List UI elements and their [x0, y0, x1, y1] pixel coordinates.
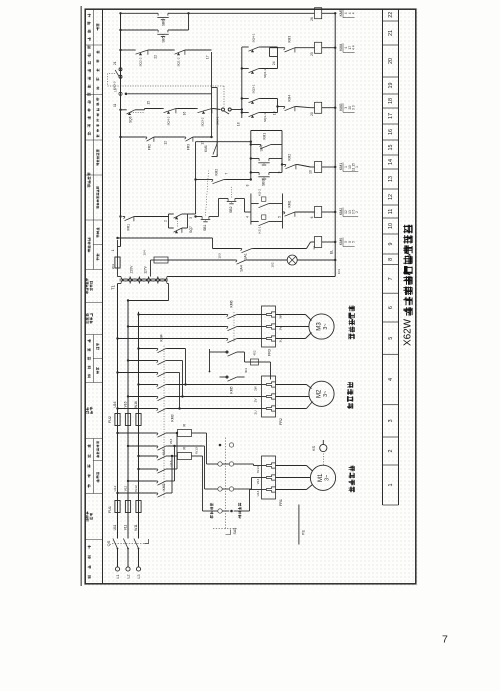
- svg-text:2: 2: [388, 450, 394, 453]
- wire lamp feeder: [218, 253, 222, 258]
- svg-text:2: 2: [164, 220, 168, 222]
- svg-text:18: 18: [388, 98, 394, 104]
- thermal relay FR3 heaters: [262, 306, 276, 356]
- svg-text:KM4: KM4: [288, 95, 292, 102]
- svg-text:V12: V12: [124, 485, 128, 491]
- svg-text:KM1: KM1: [162, 448, 166, 455]
- svg-text:KM2: KM2: [288, 154, 292, 161]
- auxiliary contact KM2 NO: [194, 169, 251, 184]
- wire 19 merge: [273, 99, 283, 116]
- fuse FU3 control: [111, 240, 134, 277]
- wire M3 drops from bus: [116, 313, 225, 339]
- fuse FU2: [108, 414, 141, 426]
- svg-text:13: 13: [114, 88, 118, 92]
- svg-text:12: 12: [388, 194, 394, 200]
- svg-text:127V: 127V: [144, 265, 148, 273]
- resistor R braking 1: [168, 447, 203, 460]
- header table labels: [86, 14, 100, 579]
- svg-text:EL: EL: [330, 250, 334, 254]
- svg-text:W16: W16: [134, 401, 138, 408]
- coil KM2: [315, 207, 344, 218]
- mechanical link dotted line of main contacts: [163, 345, 165, 498]
- terminal L1: [115, 567, 120, 579]
- crossref KM4: [343, 43, 355, 52]
- svg-text:KM2: KM2: [215, 169, 219, 176]
- svg-text:SQ4-1: SQ4-1: [252, 33, 256, 42]
- switch QS: [106, 539, 149, 550]
- crossref KM2: [343, 208, 359, 217]
- svg-text:SQ6: SQ6: [129, 116, 133, 123]
- wire labels 2U 2V 2W: [254, 386, 258, 414]
- wire labels U14 V14 W14: [256, 466, 260, 496]
- svg-text:U14: U14: [256, 490, 260, 496]
- svg-text:V14: V14: [256, 478, 260, 484]
- svg-text:KS-2: KS-2: [258, 189, 262, 196]
- dashed linkage SA3: [108, 86, 225, 107]
- svg-text:2W: 2W: [254, 386, 258, 391]
- wire labels 3U 3V 3W: [279, 314, 283, 342]
- lamp EL: [287, 250, 336, 265]
- svg-text:10: 10: [309, 170, 313, 174]
- svg-text:14: 14: [312, 246, 316, 250]
- svg-text:15: 15: [388, 145, 394, 151]
- svg-text:6: 6: [388, 306, 394, 309]
- wire jog into reversing switch: [168, 433, 211, 511]
- svg-text:SB5: SB5: [162, 36, 166, 42]
- auxiliary contact tap with fuse FU5: [209, 349, 271, 394]
- wire KM4 crossover to M2 phases: [168, 349, 187, 410]
- svg-text:1: 1: [388, 484, 394, 487]
- svg-text:11: 11: [388, 209, 394, 215]
- thermal relay FR2 heaters: [262, 376, 284, 425]
- svg-text:T1: T1: [111, 284, 116, 290]
- wire parallel pair: [212, 52, 218, 157]
- button SB6 rapid: [119, 12, 188, 26]
- svg-text:KM1: KM1: [288, 200, 292, 207]
- svg-text:SQ7: SQ7: [189, 226, 193, 233]
- wire control rail top: [118, 13, 121, 247]
- wire labels U13 V13 W13: [169, 438, 199, 466]
- contactor KM6 main contacts: [226, 300, 239, 342]
- wire phase bus L3: [138, 312, 140, 567]
- svg-text:16: 16: [388, 129, 394, 135]
- svg-text:KM5: KM5: [339, 9, 343, 16]
- thermal contact FR2 NC: [119, 136, 155, 150]
- wire phase bus L1: [117, 284, 119, 567]
- svg-text:9: 9: [278, 171, 282, 173]
- crossref KM5: [343, 9, 355, 18]
- svg-text:3: 3: [388, 419, 394, 422]
- svg-text:W13: W13: [195, 447, 199, 454]
- svg-text:2: 2: [355, 211, 359, 213]
- svg-text:KS: KS: [311, 446, 316, 452]
- svg-text:8: 8: [246, 184, 250, 186]
- title X62W universal milling machine electrical schematic: [402, 225, 413, 346]
- svg-text:14: 14: [388, 159, 394, 165]
- contactor KM1 main contacts: [156, 433, 168, 460]
- wire labels U16 V16 W16: [113, 401, 138, 408]
- label cooling pump motor: [349, 306, 355, 340]
- svg-text:SA5: SA5: [233, 528, 237, 535]
- outer left border line of scanned sheet: [81, 6, 82, 586]
- switch SA1 cooling pump: [240, 242, 315, 260]
- label feed motor: [347, 382, 353, 409]
- fuse FU4 lighting: [143, 250, 235, 276]
- svg-text:401: 401: [244, 368, 248, 373]
- svg-text:KM4: KM4: [160, 334, 164, 341]
- limit switch SQ2-1: [241, 67, 278, 78]
- coil KM1: [315, 162, 344, 173]
- crossref KM1: [343, 163, 359, 172]
- wire labels U11 V11 W11: [113, 524, 138, 531]
- svg-text:X62W: X62W: [402, 318, 413, 346]
- switch SA3-3 on rail: [108, 61, 123, 90]
- svg-text:M1: M1: [318, 473, 324, 482]
- svg-text:101: 101: [337, 269, 341, 274]
- svg-text:17: 17: [206, 55, 210, 59]
- svg-text:FR3: FR3: [268, 349, 272, 356]
- motor M3 cooling pump: [309, 314, 334, 339]
- limit switch SQ4-2 NC: [147, 101, 196, 126]
- svg-text:22: 22: [154, 55, 158, 59]
- svg-text:FU2: FU2: [108, 416, 112, 423]
- wire to KM5 coil: [187, 12, 314, 30]
- svg-text:KM6: KM6: [339, 238, 343, 245]
- button SB5 rapid: [119, 29, 188, 43]
- wire phase bus L2: [127, 301, 129, 567]
- svg-text:KM3: KM3: [339, 104, 343, 111]
- svg-text:KM1: KM1: [263, 133, 267, 140]
- svg-text:FR2: FR2: [148, 144, 152, 150]
- svg-text:20: 20: [310, 112, 314, 116]
- drawing frame: [85, 9, 416, 584]
- svg-text:104: 104: [143, 250, 147, 255]
- svg-text:U13: U13: [169, 460, 173, 466]
- svg-text:SA1: SA1: [244, 253, 248, 260]
- svg-text:18: 18: [237, 122, 241, 126]
- svg-text:FR3: FR3: [187, 144, 191, 150]
- terminal L3: [136, 567, 141, 579]
- ground PE: [299, 505, 306, 545]
- svg-text:19: 19: [273, 111, 277, 115]
- limit switch SQ1-1: [241, 111, 278, 122]
- svg-text:10: 10: [388, 223, 394, 229]
- svg-text:201: 201: [111, 264, 115, 269]
- wire node 9: [251, 131, 284, 174]
- wire node 3: [184, 142, 196, 214]
- svg-text:16: 16: [183, 112, 187, 116]
- contactor KM2 main contacts: [156, 469, 168, 497]
- wire KM2 to KM1 merge: [168, 432, 179, 493]
- coil KM4: [315, 42, 344, 53]
- svg-text:6: 6: [310, 216, 314, 218]
- wire control rail bottom 101: [169, 13, 342, 277]
- svg-text:7: 7: [225, 173, 229, 175]
- start button SB3: [250, 171, 282, 186]
- crossref KM6: [343, 238, 355, 247]
- svg-text:11: 11: [113, 103, 117, 107]
- coil KM6: [312, 237, 343, 250]
- svg-text:102: 102: [271, 262, 275, 267]
- wire FR1 to M1: [276, 466, 313, 490]
- interlock contact KM4 NC: [283, 95, 315, 116]
- svg-text:KM3: KM3: [171, 414, 175, 421]
- svg-text:25: 25: [310, 52, 314, 56]
- svg-text:SB3: SB3: [262, 179, 266, 186]
- svg-text:1: 1: [111, 249, 115, 251]
- svg-text:KM1: KM1: [339, 163, 343, 170]
- svg-text:4: 4: [246, 216, 250, 218]
- svg-text:SB6: SB6: [162, 20, 166, 26]
- switch SA3-1: [216, 108, 242, 125]
- svg-text:26: 26: [310, 17, 314, 21]
- svg-text:KM2: KM2: [339, 208, 343, 215]
- interlock contact KM1 NC: [278, 200, 315, 218]
- svg-text:KM5: KM5: [230, 386, 234, 393]
- svg-text:SQ2-2: SQ2-2: [139, 57, 143, 66]
- interlock contact KM3 NC: [283, 36, 315, 56]
- svg-text:FR1: FR1: [127, 224, 131, 231]
- svg-text:4: 4: [351, 12, 355, 14]
- auxiliary contact KM1 round table: [204, 142, 217, 157]
- svg-text:19: 19: [388, 83, 394, 89]
- wire FR2 to M2: [276, 385, 313, 409]
- selfhold contact KM1 NO: [250, 133, 282, 149]
- wire drum switch to FR1: [245, 464, 262, 511]
- svg-text:15: 15: [147, 101, 151, 105]
- svg-text:5: 5: [278, 216, 282, 218]
- svg-text:3~: 3~: [323, 323, 329, 329]
- limit switch SQ4-1: [242, 33, 278, 52]
- svg-text:L3: L3: [137, 574, 141, 578]
- svg-text:FU1: FU1: [108, 506, 112, 513]
- svg-text:FR2: FR2: [279, 418, 283, 425]
- contactor KM4 main contacts: [156, 334, 168, 376]
- wire 4 to KS: [245, 199, 251, 218]
- svg-text:20: 20: [388, 58, 394, 64]
- stop button SB2: [219, 186, 245, 217]
- speed relay KS: [311, 440, 327, 465]
- svg-text:SB1: SB1: [203, 224, 207, 231]
- svg-text:7: 7: [388, 277, 394, 280]
- coil KM5: [315, 8, 344, 19]
- svg-text:PE: PE: [301, 530, 306, 536]
- svg-text:3~: 3~: [325, 475, 331, 481]
- connector plug node 11: [114, 88, 212, 95]
- svg-text:8: 8: [388, 258, 394, 261]
- wire 24 merge: [270, 47, 283, 69]
- svg-text:13: 13: [388, 176, 394, 182]
- svg-text:SQ3-1: SQ3-1: [252, 84, 256, 93]
- coil KM3: [315, 102, 344, 113]
- svg-text:U11: U11: [113, 524, 117, 530]
- svg-text:SQ1-2: SQ1-2: [177, 57, 181, 66]
- label spindle motor: [349, 466, 355, 493]
- wire FR3 to M3: [276, 315, 312, 339]
- svg-text:103: 103: [218, 253, 222, 258]
- svg-text:13: 13: [201, 141, 205, 145]
- svg-text:KM4: KM4: [339, 44, 343, 51]
- svg-text:SQ4-2: SQ4-2: [167, 116, 171, 125]
- limit switch SQ2-2 NC: [119, 49, 172, 67]
- reversing drum switch SA5: [210, 437, 244, 535]
- thermal contact FR1 NC: [119, 215, 135, 230]
- svg-text:1: 1: [355, 166, 359, 168]
- limit switch SQ7 jog: [169, 214, 194, 233]
- limit switch SQ3-1: [241, 84, 278, 103]
- limit switch SQ1-2 NC: [173, 50, 212, 67]
- svg-text:21: 21: [113, 61, 117, 65]
- svg-text:4: 4: [388, 378, 394, 381]
- svg-text:4 4: 4 4: [351, 45, 355, 50]
- wire start node 8: [196, 131, 253, 187]
- transformer T1: [111, 277, 169, 302]
- svg-text:3 3: 3 3: [351, 105, 355, 110]
- svg-text:KS-1: KS-1: [258, 226, 262, 233]
- fuse FU1: [108, 501, 141, 513]
- svg-text:3: 3: [189, 217, 193, 219]
- svg-text:3~: 3~: [323, 391, 329, 397]
- svg-text:QS: QS: [106, 540, 111, 546]
- svg-text:KM6: KM6: [230, 300, 234, 307]
- svg-text:402: 402: [253, 350, 257, 355]
- svg-text:SQ2-1: SQ2-1: [263, 69, 267, 78]
- svg-text:V16: V16: [124, 401, 128, 407]
- column number strip: [383, 9, 399, 506]
- limit switch SQ3-2 NC: [183, 109, 221, 127]
- svg-text:7: 7: [442, 634, 448, 646]
- svg-text:22: 22: [388, 12, 394, 18]
- motor M2 feed: [309, 381, 334, 406]
- svg-text:24: 24: [272, 61, 276, 65]
- svg-text:M3: M3: [317, 322, 323, 331]
- terminal L2: [126, 567, 131, 579]
- limit switch SQ6 jog feed: [113, 103, 162, 123]
- thermal contact FR3 NC: [156, 136, 213, 150]
- svg-text:12: 12: [164, 141, 168, 145]
- speed relay contacts KS-1 KS-2: [251, 189, 283, 234]
- svg-text:W14: W14: [256, 466, 260, 473]
- start button SB4: [250, 145, 282, 165]
- svg-text:FR1: FR1: [279, 499, 283, 506]
- svg-text:V11: V11: [124, 525, 128, 531]
- crossref KM3: [343, 103, 355, 112]
- svg-text:17: 17: [388, 113, 394, 119]
- svg-text:U12: U12: [113, 485, 117, 491]
- svg-text:V13: V13: [169, 438, 173, 444]
- svg-text:W12: W12: [134, 485, 138, 492]
- switch SA4 lamp: [235, 260, 288, 272]
- svg-text:L1: L1: [116, 574, 120, 578]
- svg-text:SQ1-1: SQ1-1: [263, 113, 267, 122]
- wire 2: [136, 214, 169, 228]
- wire pump feeder: [116, 237, 239, 249]
- svg-text:9: 9: [388, 243, 394, 246]
- resistor R braking 2: [168, 424, 203, 437]
- interlock contact KM2 NC: [284, 154, 315, 174]
- motor M1 spindle: [310, 465, 335, 490]
- svg-text:220V: 220V: [130, 265, 134, 274]
- stop button SB1: [194, 171, 218, 232]
- wire M2 phase drops to FR2: [168, 385, 262, 409]
- svg-text:5: 5: [351, 241, 355, 243]
- wire M3 drops to FR3: [239, 315, 262, 339]
- thermal relay FR1 heaters: [262, 456, 284, 506]
- wire feeder 18: [237, 47, 244, 126]
- svg-text:21: 21: [388, 30, 394, 36]
- svg-text:5: 5: [388, 337, 394, 340]
- svg-text:M2: M2: [317, 389, 323, 398]
- svg-text:KM1: KM1: [204, 145, 208, 152]
- svg-text:KM3: KM3: [288, 36, 292, 43]
- contactor KM3 main contacts: [156, 385, 175, 422]
- svg-text:L2: L2: [127, 574, 131, 578]
- wire M2 drops from bus: [116, 347, 155, 409]
- svg-text:SQ3-2: SQ3-2: [201, 117, 205, 126]
- svg-text:W11: W11: [134, 524, 138, 531]
- header table grid: [85, 9, 103, 585]
- wire labels U12 V12 W12: [113, 485, 138, 492]
- svg-text:SB2: SB2: [229, 206, 233, 213]
- svg-text:U16: U16: [113, 401, 117, 407]
- wire M1 drops from bus: [116, 432, 155, 494]
- svg-text:SA4: SA4: [240, 265, 244, 272]
